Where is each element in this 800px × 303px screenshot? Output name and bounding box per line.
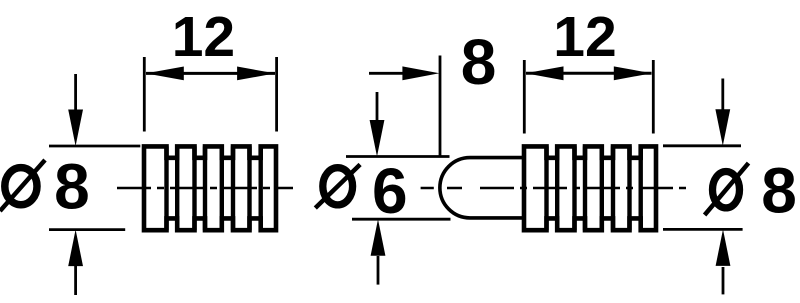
right buffer rib edge line 6 — [611, 146, 615, 230]
left buffer rib edge line 5 — [220, 146, 224, 230]
right buffer centerline lead-in dashes — [421, 187, 462, 190]
svg-text:8: 8 — [761, 155, 797, 227]
dim diameter 8 right: arrow down — [721, 79, 724, 112]
right buffer rib edge line 2 — [555, 146, 559, 230]
dim 12 left: arrowhead right — [237, 67, 275, 81]
dim diameter 6: arrow down — [376, 92, 379, 122]
dim 12 left: extension line left — [143, 57, 146, 132]
dim 12 left: dimension line — [146, 72, 275, 75]
left buffer rib edge line 1 — [164, 146, 168, 230]
right buffer rib edge line 4 — [583, 146, 587, 230]
svg-text:12: 12 — [553, 5, 616, 69]
right buffer rib edge line 3 — [572, 146, 576, 230]
dim diameter 8 right: diameter symbol — [705, 163, 749, 215]
right buffer rib edge line 8 — [639, 146, 643, 230]
dim 8 right: arrow pointing right — [369, 72, 407, 75]
left buffer rib edge line 4 — [203, 146, 207, 230]
right buffer rib edge line 5 — [600, 146, 604, 230]
left buffer rib edge line 7 — [247, 146, 251, 230]
left buffer rib edge line 3 — [192, 146, 196, 230]
dim diameter 8 right: extension line top — [663, 144, 741, 147]
right buffer centerline — [480, 187, 686, 190]
dim diameter 8 left: extension line bottom — [49, 228, 125, 231]
dim 8 right: extension line shared — [523, 60, 526, 134]
dim 12 left: extension line right — [275, 57, 278, 132]
dim diameter 8 left: arrow down — [74, 74, 77, 112]
svg-text:8: 8 — [461, 26, 497, 98]
svg-text:6: 6 — [372, 155, 408, 227]
dim diameter 8 right: extension line bottom — [663, 228, 743, 231]
right buffer nose (pin) — [440, 158, 524, 218]
dim 12 right: arrowhead right — [614, 66, 652, 80]
left buffer rib edge line 8 — [259, 146, 263, 230]
left buffer body outline — [144, 146, 276, 230]
right buffer rib edge line 7 — [627, 146, 631, 230]
left buffer centerline — [117, 187, 293, 190]
dim 8 right: extension line at nose tip — [439, 56, 442, 157]
dim 12 right: dimension line — [526, 72, 652, 75]
dim diameter 6: extension line top — [346, 155, 450, 158]
left buffer rib edge line 6 — [231, 146, 235, 230]
dim diameter 6: arrow up — [377, 256, 380, 285]
dim diameter 6: extension line bottom — [352, 218, 451, 221]
right buffer rib edge line 1 — [544, 146, 548, 230]
dim 12 right: extension line right — [652, 60, 655, 134]
dim diameter 8 left: extension line top — [49, 145, 140, 148]
dim diameter 8 right: arrow up — [722, 267, 725, 294]
right buffer body outline — [524, 146, 656, 230]
left buffer rib edge line 2 — [175, 146, 179, 230]
svg-text:8: 8 — [54, 151, 90, 223]
dim diameter 6: diameter symbol — [315, 165, 360, 209]
dim 12 left: arrowhead left — [146, 67, 184, 81]
svg-text:12: 12 — [172, 5, 235, 69]
dim 12 right: arrowhead left — [526, 66, 564, 80]
dim diameter 8 left: diameter symbol — [0, 160, 45, 211]
dim diameter 8 left: arrow up — [74, 263, 77, 295]
